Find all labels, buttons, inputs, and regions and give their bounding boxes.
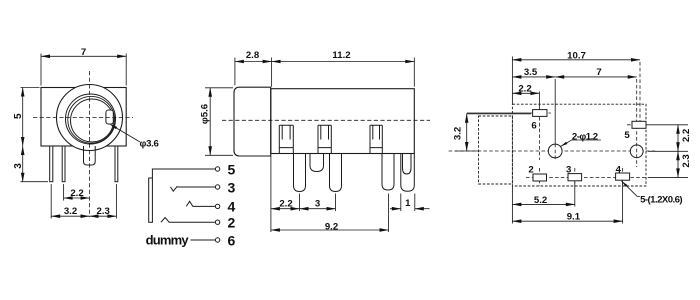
hole 2 — [630, 145, 643, 158]
10.7 right dashed extension — [639, 62, 641, 121]
dimension 3.5 — [512, 76, 555, 78]
dimension 2.3 (bottom view right) — [677, 151, 679, 177]
svg-text:2-φ1.2: 2-φ1.2 — [572, 132, 598, 143]
barrel dashed outline — [479, 116, 513, 184]
svg-text:6: 6 — [531, 121, 536, 132]
dimension 3 (pin length) — [21, 146, 49, 182]
hole 1 — [548, 144, 562, 158]
wire terminal 6 — [191, 239, 216, 241]
dimension 9.2 (side) — [271, 194, 389, 233]
svg-text:2.2: 2.2 — [681, 129, 692, 142]
pad 6 — [533, 110, 547, 117]
jack hole circle — [71, 99, 114, 142]
holes centerline horizontal — [449, 150, 656, 152]
side pin A — [294, 154, 306, 192]
pad 2 vertical dashed — [539, 168, 541, 186]
pad 2 — [533, 174, 547, 181]
front pin 1 — [50, 146, 53, 182]
sleeve bar — [149, 178, 153, 222]
side pin D rear — [401, 154, 415, 192]
threaded bushing outer circle — [57, 85, 123, 151]
dimension 7 (bottom view) — [555, 76, 637, 78]
dimension 5.2 — [512, 182, 574, 224]
svg-text:2: 2 — [528, 165, 533, 176]
svg-text:11.2: 11.2 — [332, 50, 350, 61]
svg-text:3: 3 — [315, 198, 320, 209]
leader line phi 3.6 — [111, 125, 141, 143]
dimension 2.2 (side) — [271, 156, 300, 233]
hole 2 vertical dashed extension — [636, 79, 638, 167]
terminal circle 2 — [215, 220, 219, 224]
front pin 3 — [115, 146, 118, 182]
pad 4 vertical dashed — [622, 168, 624, 186]
svg-text:2.8: 2.8 — [246, 50, 260, 61]
svg-text:φ5.6: φ5.6 — [200, 104, 211, 124]
contact window 3 — [370, 125, 382, 153]
terminal circle 3 — [215, 185, 219, 189]
side body outline — [271, 89, 414, 154]
bushing inner ring — [66, 94, 116, 144]
svg-text:3.2: 3.2 — [64, 206, 77, 217]
center stub pin — [84, 146, 96, 165]
front view vertical centerline — [89, 71, 91, 217]
pads 2 3 4 centerline — [526, 176, 648, 178]
svg-text:φ3.6: φ3.6 — [140, 139, 159, 150]
dimension 1 (last pin) — [390, 194, 430, 212]
svg-text:5-(1.2X0.6): 5-(1.2X0.6) — [640, 194, 682, 205]
pad 6 centerline — [467, 112, 531, 114]
dimension 2.8 (barrel) — [235, 58, 272, 87]
jack body front outline — [41, 88, 126, 147]
dimension 5 (front height) — [21, 88, 40, 147]
pcb body dashed outline — [512, 104, 646, 186]
dimension 2.2 (bottom view right) — [648, 125, 688, 152]
pad 3 — [568, 174, 582, 181]
terminal circle 6 — [215, 238, 219, 242]
svg-text:7: 7 — [596, 67, 601, 78]
hole 1 vertical crosshair — [554, 144, 556, 160]
side view centerline — [222, 119, 430, 121]
label 2-phi1.2 with leader — [561, 140, 601, 146]
svg-text:3.5: 3.5 — [524, 67, 538, 78]
svg-text:9.2: 9.2 — [325, 221, 338, 232]
side pin B — [330, 154, 342, 192]
svg-text:2.2: 2.2 — [518, 84, 531, 95]
svg-text:4: 4 — [616, 165, 622, 176]
side short pin S1 — [310, 154, 324, 172]
pad 5 — [632, 121, 646, 128]
svg-text:5: 5 — [624, 130, 630, 141]
side pin C — [382, 154, 394, 191]
svg-text:9.1: 9.1 — [567, 211, 581, 222]
dimension 3.2 / 2.3 (front) — [51, 184, 116, 219]
svg-text:6: 6 — [228, 232, 236, 248]
contact window 2 — [318, 125, 331, 153]
threaded barrel — [234, 87, 271, 156]
label 5-(1.2X0.6) with leader — [622, 181, 641, 197]
dimension 7 (front width) — [41, 54, 126, 86]
wire terminal 2 with peak — [161, 218, 216, 223]
hole 1 vertical extension — [554, 79, 556, 144]
svg-text:5: 5 — [228, 162, 236, 178]
dimension phi 5.6 (barrel dia) — [205, 88, 233, 156]
svg-text:3.2: 3.2 — [453, 127, 464, 140]
terminal circle 5 — [215, 167, 219, 171]
dimension 2.2 (bottom view top) — [512, 92, 539, 94]
front pin 2 — [62, 146, 65, 182]
svg-text:1: 1 — [405, 198, 411, 209]
svg-text:2: 2 — [228, 215, 236, 231]
terminal circle 4 — [215, 204, 219, 208]
svg-text:3: 3 — [228, 179, 236, 195]
svg-text:2.2: 2.2 — [279, 198, 292, 209]
svg-text:dummy: dummy — [146, 232, 190, 247]
svg-text:2.3: 2.3 — [681, 154, 692, 167]
dimension 2.2 (front) — [64, 184, 90, 201]
dimension 11.2 (body length) — [272, 58, 415, 87]
pad 6 vertical dashed — [538, 92, 540, 117]
svg-text:7: 7 — [81, 47, 86, 58]
wire terminal 3 with tick — [170, 186, 215, 191]
svg-text:3: 3 — [13, 163, 24, 169]
wire terminal 4 with peak — [186, 201, 215, 206]
bushing chamfer arc — [68, 96, 115, 143]
side short pin S2 — [403, 154, 412, 175]
pad 3 vertical dashed — [574, 168, 576, 186]
tip contact window — [106, 110, 113, 124]
svg-text:4: 4 — [228, 199, 236, 215]
pad 5 centerline — [627, 124, 648, 126]
pad 4 — [616, 173, 630, 180]
wire terminal 5 — [152, 169, 215, 178]
dimension 3.2 (bottom view left) — [455, 114, 531, 151]
dimension 10.7 — [512, 57, 640, 105]
svg-text:2.2: 2.2 — [70, 188, 83, 199]
svg-text:2.3: 2.3 — [97, 206, 110, 217]
svg-text:5: 5 — [13, 113, 24, 119]
front view horizontal centerline — [33, 117, 133, 119]
contact window 1 — [279, 125, 293, 153]
svg-text:3: 3 — [566, 165, 571, 176]
svg-text:5.2: 5.2 — [534, 195, 547, 206]
svg-text:10.7: 10.7 — [567, 50, 586, 61]
dimension 9.1 — [512, 182, 622, 224]
dimension 3 (side) — [300, 194, 336, 212]
